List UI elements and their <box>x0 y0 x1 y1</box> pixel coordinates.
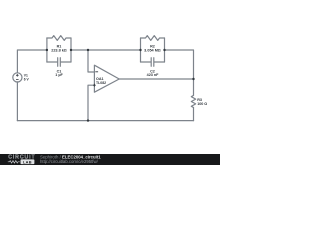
svg-text:TL082: TL082 <box>96 81 106 85</box>
svg-text:423 nF: 423 nF <box>147 73 159 77</box>
svg-text:223.8 kΩ: 223.8 kΩ <box>51 48 67 52</box>
svg-text:LAB: LAB <box>23 159 32 164</box>
footer bar <box>0 154 220 165</box>
wire non-inverting input drop <box>88 85 94 120</box>
svg-text:3.054 MΩ: 3.054 MΩ <box>144 48 161 52</box>
V1 minus sign <box>16 79 19 81</box>
svg-text:http://circuitlab.com/c/e295tf: http://circuitlab.com/c/e295tfw/ <box>40 159 99 164</box>
junction node R2 right terminal <box>163 49 165 51</box>
op-amp plus input sign <box>93 84 96 87</box>
wire top-right from R2 block to right rail <box>165 50 194 95</box>
CircuitLab logo resistor zigzag <box>8 161 20 163</box>
svg-text:100 Ω: 100 Ω <box>197 102 207 106</box>
wire left rail below V1 <box>16 82 18 121</box>
wire inverting input drop <box>88 50 94 72</box>
junction node ground rail <box>87 119 89 121</box>
V1 plus sign <box>16 74 19 77</box>
R2 C2 parallel block frame <box>141 38 165 62</box>
junction node R1 left terminal <box>46 49 48 51</box>
capacitor C2 <box>141 58 165 67</box>
wire right rail below R3 <box>193 108 195 121</box>
resistor R3 <box>191 95 195 107</box>
voltage source V1 <box>13 73 22 82</box>
svg-text:6 V: 6 V <box>24 77 30 81</box>
junction node R1 right terminal <box>70 49 72 51</box>
resistor R2 <box>141 36 165 41</box>
capacitor C1 <box>47 58 71 67</box>
wire op-amp output <box>119 78 193 80</box>
op-amp minus input sign <box>95 71 98 73</box>
wire bottom rail <box>17 120 193 122</box>
junction node output to R3 <box>192 78 194 80</box>
CircuitLab logo LAB box <box>21 159 35 164</box>
junction node inverting branch <box>87 49 89 51</box>
resistor R1 <box>47 36 71 41</box>
R1 C1 parallel block frame <box>47 38 71 62</box>
junction node R2 left terminal <box>139 49 141 51</box>
op-amp U1 triangle <box>94 65 119 92</box>
wire top-middle from R1 block to R2 block <box>71 49 141 51</box>
wire top-left from V1 to R1 block <box>17 50 47 73</box>
svg-text:1 µF: 1 µF <box>55 73 63 77</box>
